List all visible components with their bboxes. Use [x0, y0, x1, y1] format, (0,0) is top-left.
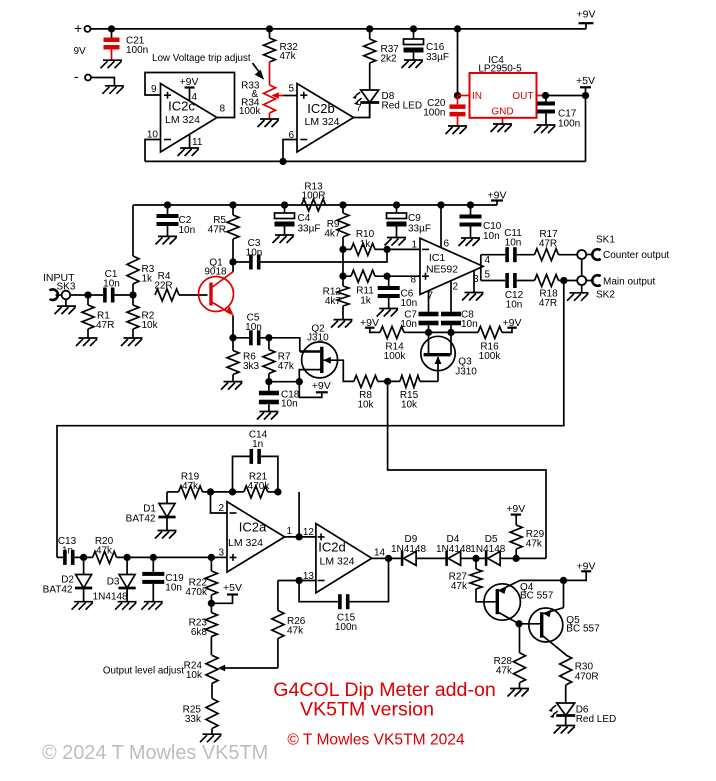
transistor Q5 BC557 [516, 608, 600, 656]
svg-text:47R: 47R [539, 239, 557, 250]
svg-text:OUT: OUT [512, 91, 533, 102]
svg-text:BAT42: BAT42 [126, 514, 156, 525]
transistor Q4 BC557 [484, 580, 554, 623]
svg-text:Output level adjust: Output level adjust [103, 666, 184, 677]
svg-text:100k: 100k [479, 351, 502, 362]
ground IC1 pin3 [462, 271, 484, 301]
svg-text:100k: 100k [384, 351, 407, 362]
+9V supply at Q4 Q5 [520, 560, 595, 607]
svg-text:8: 8 [410, 275, 416, 286]
svg-text:Main output: Main output [603, 276, 655, 287]
svg-text:1N4148: 1N4148 [391, 544, 426, 555]
capacitor C3 [246, 238, 387, 270]
svg-text:1n: 1n [62, 546, 73, 557]
svg-text:33µF: 33µF [426, 52, 449, 63]
svg-text:10k: 10k [186, 670, 203, 681]
svg-text:10n: 10n [165, 583, 182, 594]
wire IC2d pin13 [278, 578, 316, 584]
resistor R21 [244, 472, 281, 498]
svg-text:C4: C4 [298, 213, 311, 224]
svg-text:33µF: 33µF [408, 224, 431, 235]
diode D5 [470, 534, 546, 566]
ground IC2c pin11 [178, 134, 200, 156]
svg-text:47R: 47R [539, 298, 557, 309]
capacitor C5 [245, 313, 269, 346]
svg-text:470k: 470k [248, 481, 271, 492]
resistor R2 [121, 295, 159, 346]
resistor R20 [93, 536, 227, 563]
svg-text:IC2d: IC2d [318, 540, 345, 555]
svg-text:100k: 100k [239, 106, 262, 117]
svg-text:Counter output: Counter output [603, 250, 669, 261]
node IC4 input branch [455, 26, 461, 98]
resistor R9 [324, 202, 349, 249]
svg-text:© 2024 T Mowles VK5TM: © 2024 T Mowles VK5TM [42, 742, 268, 764]
svg-text:47k: 47k [526, 539, 543, 550]
svg-text:100n: 100n [335, 622, 357, 633]
svg-text:J310: J310 [307, 333, 329, 344]
resistor R10 [340, 229, 420, 255]
resistor R5 [208, 202, 239, 262]
svg-text:LP2950-5: LP2950-5 [478, 64, 522, 75]
svg-text:9V: 9V [74, 46, 87, 57]
+9V supply at IC2c pin4 [180, 76, 199, 101]
wire feedback riser R8 node [388, 381, 546, 558]
svg-text:10k: 10k [142, 320, 159, 331]
connector SK1 [577, 235, 669, 277]
svg-text:10n: 10n [179, 225, 196, 236]
capacitor C2 [156, 202, 196, 244]
svg-text:10n: 10n [461, 319, 478, 330]
svg-text:BC 557: BC 557 [566, 624, 600, 635]
capacitor C19 [141, 555, 184, 610]
svg-text:GND: GND [491, 107, 513, 118]
wire top +9V rail [91, 28, 586, 30]
svg-text:47k: 47k [451, 581, 468, 592]
svg-text:12: 12 [303, 527, 315, 538]
svg-text:1N4148: 1N4148 [470, 544, 505, 555]
wire Q2 gate [269, 338, 300, 352]
node Q1 emitter / C5 [230, 335, 249, 341]
resistor R16 [478, 317, 521, 362]
svg-text:+9V: +9V [180, 76, 199, 88]
resistor R15 [400, 375, 438, 410]
capacitor C6 [377, 276, 417, 316]
svg-text:1N4148: 1N4148 [436, 544, 471, 555]
capacitor C1 [103, 269, 133, 303]
+5V supply at R22 [211, 582, 242, 603]
svg-text:10n: 10n [505, 237, 522, 248]
svg-text:10n: 10n [103, 279, 120, 290]
op-amp IC2d [303, 524, 402, 593]
svg-text:10n: 10n [401, 298, 418, 309]
svg-text:10n: 10n [281, 399, 298, 410]
svg-text:6k8: 6k8 [191, 627, 208, 638]
svg-text:IC1: IC1 [429, 252, 446, 264]
op-amp IC2c [145, 73, 235, 162]
capacitor C12 [481, 273, 535, 311]
capacitor C7 [400, 291, 438, 333]
resistor R30 [560, 655, 599, 703]
svg-text:+9V: +9V [577, 9, 596, 21]
resistor R29 [506, 503, 544, 558]
svg-text:+9V: +9V [506, 503, 525, 515]
resistor R24 output level pot [103, 655, 278, 683]
wire IC2a out to C14 [298, 492, 300, 537]
svg-text:IC2a: IC2a [239, 520, 267, 535]
svg-text:© T Mowles VK5TM 2024: © T Mowles VK5TM 2024 [287, 731, 465, 748]
diode D3 [93, 555, 137, 610]
svg-text:33µF: 33µF [298, 224, 321, 235]
+9V supply above IC1 [488, 189, 507, 205]
op-amp IC1 NE592 [410, 202, 490, 301]
capacitor C18 [257, 379, 300, 420]
svg-text:10n: 10n [246, 248, 263, 259]
svg-text:5: 5 [288, 84, 294, 95]
svg-text:C9: C9 [408, 213, 421, 224]
svg-text:11: 11 [192, 137, 203, 148]
op-amp IC2b [283, 84, 370, 162]
resistor R27 [449, 558, 496, 601]
svg-text:1k: 1k [360, 296, 372, 307]
transistor Q3 J310 [421, 332, 478, 381]
resistor R7 [263, 335, 295, 382]
svg-text:3: 3 [218, 548, 224, 559]
capacitor C9 [385, 202, 432, 245]
resistor R8 [354, 375, 400, 410]
svg-text:47R: 47R [208, 225, 226, 236]
svg-text:+9V: +9V [503, 317, 522, 329]
svg-text:10k: 10k [401, 399, 418, 410]
svg-text:J310: J310 [455, 367, 477, 378]
svg-text:6: 6 [288, 130, 294, 141]
svg-text:47k: 47k [278, 361, 295, 372]
svg-text:100n: 100n [126, 45, 148, 56]
svg-text:470R: 470R [575, 672, 599, 683]
svg-text:VK5TM version: VK5TM version [300, 698, 434, 720]
svg-text:2k2: 2k2 [381, 54, 398, 65]
input connector SK3 [43, 272, 103, 314]
svg-text:1n: 1n [252, 439, 263, 450]
capacitor C13 [57, 536, 93, 565]
battery - terminal [74, 68, 124, 94]
capacitor C11 [481, 228, 535, 262]
resistor R32 [264, 26, 299, 62]
resistor R17 [535, 229, 578, 261]
wire SK2 to detector loop [57, 281, 564, 558]
svg-text:Low Voltage trip adjust: Low Voltage trip adjust [152, 53, 251, 64]
wire middle +9V rail [133, 204, 497, 206]
svg-text:1k: 1k [142, 274, 154, 285]
resistor R12 [323, 286, 353, 328]
battery + terminal [74, 20, 91, 36]
svg-text:1k: 1k [360, 239, 372, 250]
svg-text:47k: 47k [280, 51, 297, 62]
svg-text:9: 9 [151, 84, 157, 95]
svg-text:+9V: +9V [488, 189, 507, 201]
svg-text:8: 8 [220, 104, 226, 115]
capacitor C10 [459, 202, 502, 246]
capacitor C8 [441, 281, 478, 333]
node Q1 collector [230, 259, 249, 265]
diode D9 [391, 534, 447, 566]
svg-text:100R: 100R [302, 191, 326, 202]
svg-text:IN: IN [472, 91, 482, 102]
svg-text:LM 324: LM 324 [228, 537, 263, 549]
transistor Q2 J310 [299, 324, 354, 382]
svg-text:4k7: 4k7 [324, 229, 341, 240]
+9V supply at Q2 [269, 379, 331, 397]
svg-text:9018: 9018 [204, 267, 227, 278]
svg-text:Red LED: Red LED [382, 101, 423, 112]
svg-text:IC2b: IC2b [307, 101, 334, 116]
capacitor C20 [423, 96, 467, 135]
svg-text:4k7: 4k7 [325, 296, 342, 307]
LED D8 [353, 90, 423, 118]
+9V supply top right [577, 9, 596, 29]
svg-text:100n: 100n [558, 119, 580, 130]
diode D1 [126, 492, 177, 539]
svg-text:+9V: +9V [312, 380, 331, 392]
capacitor C17 [534, 96, 580, 134]
svg-text:10n: 10n [245, 322, 262, 333]
svg-text:47k: 47k [182, 481, 199, 492]
capacitor C15 [299, 558, 388, 633]
svg-text:+5V: +5V [223, 582, 242, 594]
svg-text:10n: 10n [483, 231, 500, 242]
LED D6 [549, 703, 617, 734]
potentiometer R33 R34 [239, 62, 284, 127]
connector SK2 [567, 275, 655, 301]
resistor R22 [185, 555, 217, 613]
svg-text:47R: 47R [96, 320, 114, 331]
wire +5V reference rail [145, 159, 586, 165]
Low Voltage trip adjust callout [152, 53, 264, 80]
resistor R11 [340, 249, 420, 306]
svg-text:SK1: SK1 [596, 235, 615, 246]
transistor Q1 [199, 258, 234, 338]
svg-text:SK2: SK2 [596, 290, 615, 301]
resistor R23 [189, 613, 218, 656]
resistor R4 [154, 271, 207, 301]
svg-text:14: 14 [374, 548, 386, 559]
svg-text:LM 324: LM 324 [319, 556, 354, 568]
resistor R14 [380, 326, 478, 362]
svg-text:6: 6 [444, 239, 450, 250]
svg-text:+5V: +5V [576, 75, 595, 87]
svg-text:10k: 10k [357, 399, 374, 410]
resistor R28 [494, 624, 529, 697]
svg-text:47k: 47k [287, 626, 304, 637]
resistor R6 [221, 338, 260, 390]
diode D2 [43, 555, 93, 610]
svg-text:LM 324: LM 324 [165, 114, 200, 126]
svg-text:D3: D3 [107, 577, 120, 588]
resistor R19 [167, 472, 244, 498]
resistor R26 [272, 581, 306, 669]
svg-text:LM 324: LM 324 [304, 116, 339, 128]
svg-text:Red LED: Red LED [576, 714, 617, 725]
svg-text:BAT42: BAT42 [43, 585, 73, 596]
svg-text:2: 2 [218, 503, 224, 514]
wire OUT to +5V [543, 93, 589, 162]
svg-text:1N4148: 1N4148 [93, 592, 128, 603]
svg-text:3k3: 3k3 [243, 361, 260, 372]
capacitor C14 [233, 430, 278, 492]
svg-text:1: 1 [287, 526, 293, 537]
op-amp IC2a [211, 492, 316, 572]
svg-text:+: + [74, 20, 82, 36]
svg-text:BC 557: BC 557 [520, 591, 554, 602]
svg-text:5: 5 [485, 270, 491, 281]
capacitor C16 [402, 26, 450, 68]
resistor R13 [302, 182, 326, 212]
svg-text:33k: 33k [185, 714, 202, 725]
resistor R37 [364, 26, 400, 90]
svg-text:-: - [74, 68, 79, 84]
svg-text:+9V: +9V [577, 560, 596, 572]
diode D4 [436, 534, 486, 566]
resistor R1 [76, 292, 114, 346]
+5V supply [576, 75, 595, 96]
svg-text:4: 4 [485, 255, 491, 266]
svg-text:2: 2 [453, 282, 459, 293]
svg-text:10n: 10n [506, 300, 523, 311]
svg-text:10: 10 [147, 130, 159, 141]
svg-text:NE592: NE592 [426, 264, 458, 276]
capacitor C21 [101, 26, 149, 68]
svg-text:4: 4 [192, 92, 198, 103]
svg-text:470k: 470k [185, 587, 208, 598]
+9V supply at R14 [360, 317, 380, 332]
svg-text:47k: 47k [96, 546, 113, 557]
capacitor C4 [273, 202, 321, 243]
resistor R18 [535, 275, 578, 310]
svg-text:1: 1 [411, 240, 417, 251]
resistor R3 [127, 205, 155, 298]
svg-text:100n: 100n [423, 108, 445, 119]
svg-text:47k: 47k [496, 666, 513, 677]
svg-text:22R: 22R [154, 281, 172, 292]
resistor R25 [183, 683, 222, 742]
title text red [273, 679, 496, 748]
regulator IC4 LP2950-5 [458, 55, 546, 132]
